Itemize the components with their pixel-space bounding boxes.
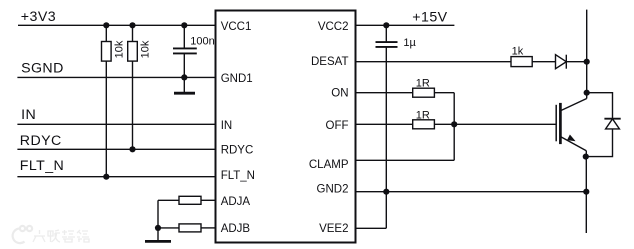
wire VCC2-GND2-VEE2 vertical xyxy=(385,47,387,228)
watermark text xyxy=(33,230,89,242)
junction emitter / GND2 xyxy=(583,189,589,195)
junction RDYC / pull-up xyxy=(129,146,135,152)
svg-text:SGND: SGND xyxy=(21,61,64,77)
wire emitter vertical xyxy=(585,151,587,233)
junction +3V3 / 100n xyxy=(181,22,187,28)
wire ON/CLAMP vertical at gate node xyxy=(453,93,455,161)
transistor Q1 collector lead xyxy=(561,99,587,111)
resistor 1R (ON gate) xyxy=(413,88,435,97)
resistor 1R (OFF gate) xyxy=(413,120,435,129)
svg-text:FLT_N: FLT_N xyxy=(20,158,64,174)
wire vertical 10k pull-up of RDYC xyxy=(132,25,134,41)
wire DESAT diode to collector line xyxy=(566,61,586,63)
svg-text:OFF: OFF xyxy=(326,120,349,132)
svg-text:ADJB: ADJB xyxy=(221,223,251,235)
junction ADJB / ground xyxy=(155,225,161,231)
wire +3V3 rail to pin VCC1 xyxy=(18,24,216,26)
junction DESAT / collector line xyxy=(584,59,590,65)
diode DESAT sense xyxy=(556,55,567,69)
svg-text:ADJA: ADJA xyxy=(221,196,251,208)
svg-text:IN: IN xyxy=(221,120,233,132)
transistor Q1 IGBT gate bar xyxy=(555,105,557,142)
resistor ADJA xyxy=(179,196,201,204)
svg-text:+3V3: +3V3 xyxy=(21,9,56,25)
wire ADJA resistor to vertical xyxy=(158,199,179,201)
svg-text:GND2: GND2 xyxy=(317,184,349,196)
capacitor 100n VCC1 decoupling xyxy=(173,47,197,49)
junction SGND / 100n xyxy=(181,74,187,80)
svg-text:FLT_N: FLT_N xyxy=(221,170,255,182)
wire ON to 1R resistor xyxy=(356,92,413,94)
transistor Q1 emitter arrow xyxy=(567,135,576,142)
svg-text:IN: IN xyxy=(21,107,36,123)
wire VCC2 rail to +15V xyxy=(356,24,455,26)
ground (ADJ divider) xyxy=(145,240,171,243)
wire vertical 10k pull-up of FLT_N xyxy=(105,25,107,41)
transistor Q1 IGBT body bar xyxy=(559,103,562,144)
wire ADJB resistor to vertical xyxy=(158,227,179,229)
junction gate node xyxy=(451,121,457,127)
wire OFF resistor to IGBT gate xyxy=(434,123,555,125)
wire RDYC to pin RDYC xyxy=(17,148,215,150)
svg-text:1R: 1R xyxy=(416,78,430,90)
junction VCC2 / 1u xyxy=(383,22,389,28)
wire GND2 to emitter xyxy=(356,191,587,193)
wire IN to pin IN xyxy=(17,123,215,125)
svg-text:+15V: +15V xyxy=(412,9,447,25)
op-amp U1 gate-driver IC body xyxy=(216,11,356,243)
wire collector line to top bus xyxy=(586,10,588,99)
wire 1k to DESAT diode xyxy=(532,61,555,63)
resistor ADJB xyxy=(179,224,201,232)
wire ON resistor to gate node xyxy=(434,92,454,94)
wire freewheel diode anode to emitter xyxy=(586,129,613,157)
svg-text:1R: 1R xyxy=(416,109,430,121)
wire ADJB pin xyxy=(201,227,216,229)
wire ADJ ground stub xyxy=(157,228,159,240)
wire ADJA pin xyxy=(201,199,216,201)
transistor Q1 emitter lead xyxy=(561,137,586,151)
resistor 10k (RDYC pull-up) xyxy=(128,42,138,62)
svg-text:DESAT: DESAT xyxy=(311,56,349,68)
wire 1u capacitor top lead xyxy=(385,25,387,41)
svg-text:1µ: 1µ xyxy=(403,37,416,49)
svg-text:10k: 10k xyxy=(139,40,151,58)
resistor 10k (FLT_N pull-up) xyxy=(102,42,112,62)
svg-text:CLAMP: CLAMP xyxy=(309,159,349,171)
svg-text:VCC2: VCC2 xyxy=(318,21,349,33)
watermark logo xyxy=(13,226,32,243)
svg-text:ON: ON xyxy=(331,87,348,99)
wire CLAMP xyxy=(356,159,455,161)
svg-text:100n: 100n xyxy=(190,35,214,47)
svg-text:VEE2: VEE2 xyxy=(319,223,348,235)
wire DESAT to 1k resistor xyxy=(356,61,512,63)
svg-text:1k: 1k xyxy=(512,46,524,58)
svg-text:10k: 10k xyxy=(114,40,126,58)
wire 100n capacitor top lead xyxy=(183,25,185,48)
svg-text:GND1: GND1 xyxy=(221,73,253,85)
junction emitter / freewheel diode xyxy=(583,154,589,160)
wire ADJA-ADJB vertical xyxy=(157,200,159,228)
wire OFF to 1R resistor xyxy=(356,123,413,125)
junction +3V3 / FLT_N pull-up xyxy=(103,22,109,28)
resistor 1k (DESAT) xyxy=(511,57,532,67)
junction collector node xyxy=(584,90,590,96)
svg-text:VCC1: VCC1 xyxy=(221,21,252,33)
capacitor 1u VCC2 decoupling xyxy=(376,41,398,43)
junction FLT_N / pull-up xyxy=(103,174,109,180)
ground (primary side, under 100n) xyxy=(174,92,195,95)
wire 100n capacitor bottom lead xyxy=(183,54,185,78)
diode freewheeling xyxy=(604,118,620,120)
wire VEE2 to GND2 tie xyxy=(356,227,387,229)
svg-text:RDYC: RDYC xyxy=(20,133,62,149)
svg-text:RDYC: RDYC xyxy=(221,144,254,156)
wire SGND to pin GND1 xyxy=(17,76,215,78)
wire GND1 ground stub xyxy=(183,77,185,92)
junction +3V3 / RDYC pull-up xyxy=(129,22,135,28)
junction GND2 / 1u vertical xyxy=(383,189,389,195)
wire FLT_N to pin FLT_N xyxy=(17,176,215,178)
wire collector to freewheel diode cathode xyxy=(587,93,613,119)
